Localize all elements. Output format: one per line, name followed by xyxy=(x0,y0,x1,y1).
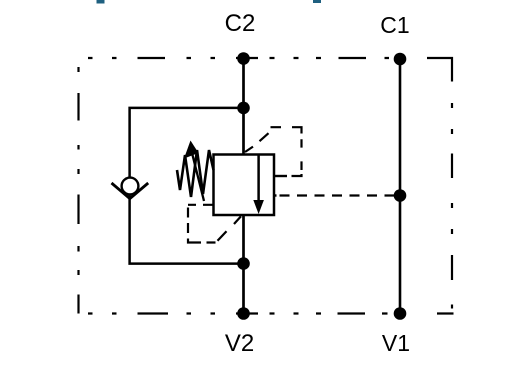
enclosure boundary bottom xyxy=(88,312,454,314)
spring adjustment arrow shaft xyxy=(192,153,204,201)
svg-text:C2: C2 xyxy=(225,10,256,37)
node: V1 port on boundary xyxy=(394,307,407,320)
enclosure boundary right (with top corner) xyxy=(427,58,452,309)
wire: C2 main vertical line (upper) xyxy=(242,59,245,155)
wire: check valve branch (top horizontal) xyxy=(130,108,244,264)
wire: main vertical line below valve to V2 xyxy=(242,215,245,314)
relief valve U1: flow arrow shaft xyxy=(257,155,260,203)
check valve: seat xyxy=(112,183,149,199)
node: C1 port on boundary xyxy=(394,53,407,66)
pilot line (dashed): right loop from valve inlet to upper pilot port xyxy=(245,127,302,176)
blue cropped text remnant top-left xyxy=(97,0,105,4)
node: lower branch junction xyxy=(237,257,250,270)
node: C2 port on boundary xyxy=(237,52,250,65)
node: pilot junction on C1 line xyxy=(394,189,407,202)
svg-text:V2: V2 xyxy=(225,330,254,357)
enclosure boundary top (dash-dot-dot phantom line) xyxy=(88,57,389,59)
pilot port stubs on right of valve xyxy=(274,175,287,177)
wire: C1-V1 vertical line xyxy=(399,59,402,314)
relief valve U1: envelope box xyxy=(214,155,275,216)
pilot line (dashed): lower pilot to C1 line xyxy=(280,194,398,196)
node: V2 port on boundary xyxy=(237,307,250,320)
enclosure boundary left xyxy=(77,67,79,314)
pilot line (dashed): bottom-left drain loop xyxy=(188,205,241,243)
svg-text:V1: V1 xyxy=(382,330,410,356)
check valve: ball xyxy=(122,178,139,195)
relief valve U1: flow arrow head xyxy=(253,200,264,214)
blue cropped text remnant top-middle xyxy=(313,0,321,3)
node: branch junction xyxy=(237,102,250,115)
svg-text:C1: C1 xyxy=(380,12,409,38)
spring (adjustable) zigzag xyxy=(177,150,214,197)
spring adjustment arrow head xyxy=(184,141,199,159)
